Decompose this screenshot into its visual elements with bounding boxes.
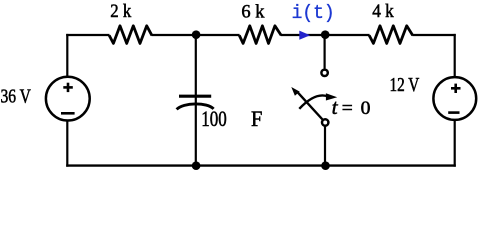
- node dot top (capacitor node): [192, 30, 201, 39]
- resistor R2 6k: [239, 26, 281, 44]
- node dot bottom (capacitor node): [192, 161, 201, 170]
- switch SW1 wire stub lower: [324, 127, 326, 167]
- switch SW1 motion arc arrowhead: [326, 93, 337, 100]
- switch SW1 lever arrowhead: [291, 87, 299, 96]
- wire right column upper: [454, 34, 456, 77]
- wire right column lower: [454, 121, 456, 167]
- wire top middle segment: [152, 34, 240, 36]
- svg-text:i(t): i(t): [292, 2, 335, 24]
- switch SW1 top terminal circle: [321, 70, 327, 76]
- wire left column upper: [66, 34, 68, 77]
- current arrow (blue): [299, 31, 310, 40]
- svg-text:36 V: 36 V: [1, 87, 31, 108]
- node dot bottom (switch node): [321, 161, 330, 170]
- svg-text:100: 100: [201, 106, 227, 131]
- V2 minus sign: [448, 111, 459, 114]
- svg-text:12 V: 12 V: [390, 75, 420, 96]
- switch SW1 lever: [297, 92, 322, 120]
- switch SW1 bottom terminal circle: [322, 119, 328, 125]
- svg-text:F: F: [251, 106, 262, 131]
- wire top-right segment: [412, 34, 455, 36]
- svg-text:2 k: 2 k: [110, 1, 131, 22]
- switch SW1 motion arc: [299, 95, 328, 108]
- svg-text:6 k: 6 k: [241, 2, 265, 23]
- V1 minus sign: [61, 112, 75, 115]
- capacitor C1 top plate: [179, 95, 211, 98]
- resistor R1 2k: [109, 26, 152, 44]
- svg-text:t=0: t=0: [332, 95, 371, 119]
- voltage source V1 circle: [46, 77, 90, 121]
- wire top segment right of 6k: [281, 34, 370, 36]
- voltage source V2 circle: [433, 77, 476, 120]
- V2 plus sign: [451, 87, 461, 90]
- wire top-left segment: [66, 34, 109, 36]
- node dot top (switch node): [321, 30, 330, 39]
- capacitor C1 lead: [195, 34, 197, 167]
- switch SW1 wire stub upper: [324, 34, 326, 69]
- wire bottom: [66, 164, 456, 166]
- capacitor C1 curved plate: [177, 104, 214, 110]
- V1 plus sign: [63, 86, 73, 89]
- wire left column lower: [66, 121, 68, 167]
- resistor R3 4k: [369, 26, 413, 44]
- svg-text:4 k: 4 k: [372, 1, 394, 22]
